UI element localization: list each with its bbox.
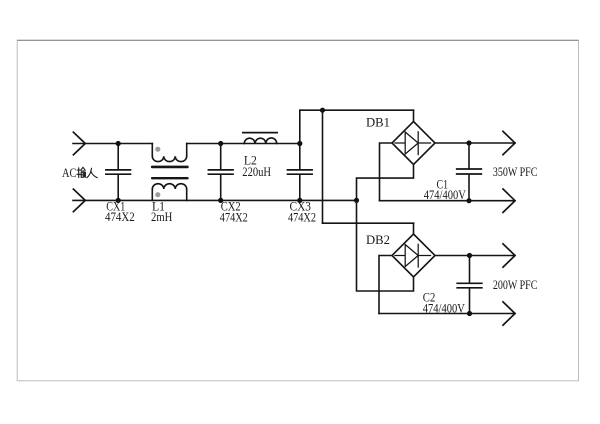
transformer L1 (common-mode choke)	[151, 144, 189, 201]
svg-text:2mH: 2mH	[151, 210, 172, 224]
wire top rail mid	[187, 143, 300, 145]
svg-text:474/400V: 474/400V	[424, 188, 466, 202]
wire DB2 top riser	[413, 223, 415, 234]
wire 200W negative rail	[379, 313, 515, 315]
wire DB1 left lead	[380, 143, 393, 201]
wire DB1 top riser	[413, 110, 415, 121]
node N branch	[354, 198, 359, 203]
node CX2 top	[218, 141, 223, 146]
wire L branch horizontal	[323, 222, 414, 224]
wire DB2 left lead	[379, 256, 392, 314]
node C2 bottom	[467, 311, 472, 316]
svg-text:200W PFC: 200W PFC	[493, 277, 538, 292]
node C2 top	[467, 253, 472, 258]
node CX1 bottom	[116, 198, 121, 203]
capacitor CX2	[208, 144, 233, 201]
output arrow 200W -	[503, 302, 515, 325]
svg-text:AC: AC	[62, 166, 77, 180]
svg-text:474X2: 474X2	[288, 210, 316, 224]
node C1 bottom	[466, 198, 471, 203]
wire 350W negative rail	[380, 200, 516, 202]
wire top branch horizontal	[300, 109, 414, 111]
wire N branch down	[357, 200, 414, 291]
node L branch	[320, 108, 325, 113]
node CX1 top	[116, 141, 121, 146]
output arrow 200W +	[503, 244, 515, 267]
wire DB1 right lead / 350W positive rail	[435, 142, 515, 144]
capacitor CX3	[288, 144, 313, 201]
wire DB2 right lead / 200W positive rail	[435, 255, 515, 257]
svg-text:474X2: 474X2	[105, 210, 135, 224]
wire bottom rail	[73, 199, 357, 201]
svg-text:DB2: DB2	[366, 233, 390, 247]
svg-text:474/400V: 474/400V	[423, 302, 465, 316]
capacitor C1	[457, 143, 482, 201]
svg-text:350W PFC: 350W PFC	[493, 164, 538, 179]
wire DB1 bottom lead	[357, 165, 414, 201]
bridge rectifier DB1	[392, 122, 435, 165]
label AC input	[62, 166, 97, 180]
wire L branch down	[322, 110, 324, 223]
wire CX3 riser	[299, 110, 301, 143]
node CX2 bottom	[218, 198, 223, 203]
bridge rectifier DB2	[392, 234, 435, 277]
output arrow 350W +	[503, 131, 515, 154]
svg-text:220uH: 220uH	[242, 165, 271, 179]
capacitor CX1	[106, 144, 131, 201]
node CX3 bottom	[297, 198, 302, 203]
output arrow 350W -	[503, 189, 515, 212]
input arrow L	[73, 132, 85, 155]
svg-text:474X2: 474X2	[220, 210, 248, 224]
svg-text:DB1: DB1	[366, 116, 390, 130]
wire top rail left	[73, 143, 152, 145]
inductor L2	[243, 133, 277, 144]
node C1 top	[466, 140, 471, 145]
capacitor C2	[457, 256, 482, 314]
node CX3 top	[297, 141, 302, 146]
input arrow N	[73, 189, 85, 212]
